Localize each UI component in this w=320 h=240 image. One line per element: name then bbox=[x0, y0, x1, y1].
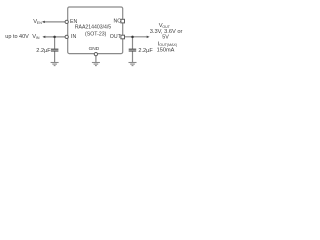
svg-text:IN: IN bbox=[36, 36, 40, 40]
svg-text:IN: IN bbox=[71, 34, 76, 40]
svg-text:up to 40V: up to 40V bbox=[5, 34, 29, 40]
svg-text:RAA214403/4/5: RAA214403/4/5 bbox=[75, 24, 111, 30]
svg-text:OUT: OUT bbox=[162, 25, 170, 29]
svg-text:OUT: OUT bbox=[110, 34, 122, 40]
svg-text:2.2µF: 2.2µF bbox=[36, 48, 51, 54]
svg-text:OUT(MAX): OUT(MAX) bbox=[159, 43, 177, 47]
svg-text:5V: 5V bbox=[162, 35, 169, 41]
svg-text:GND: GND bbox=[89, 46, 100, 52]
svg-text:(SOT-23): (SOT-23) bbox=[85, 31, 107, 37]
svg-text:2.2µF: 2.2µF bbox=[138, 48, 153, 54]
svg-text:EN: EN bbox=[37, 21, 42, 25]
svg-text:NC: NC bbox=[114, 19, 122, 25]
svg-text:150mA: 150mA bbox=[157, 48, 175, 54]
